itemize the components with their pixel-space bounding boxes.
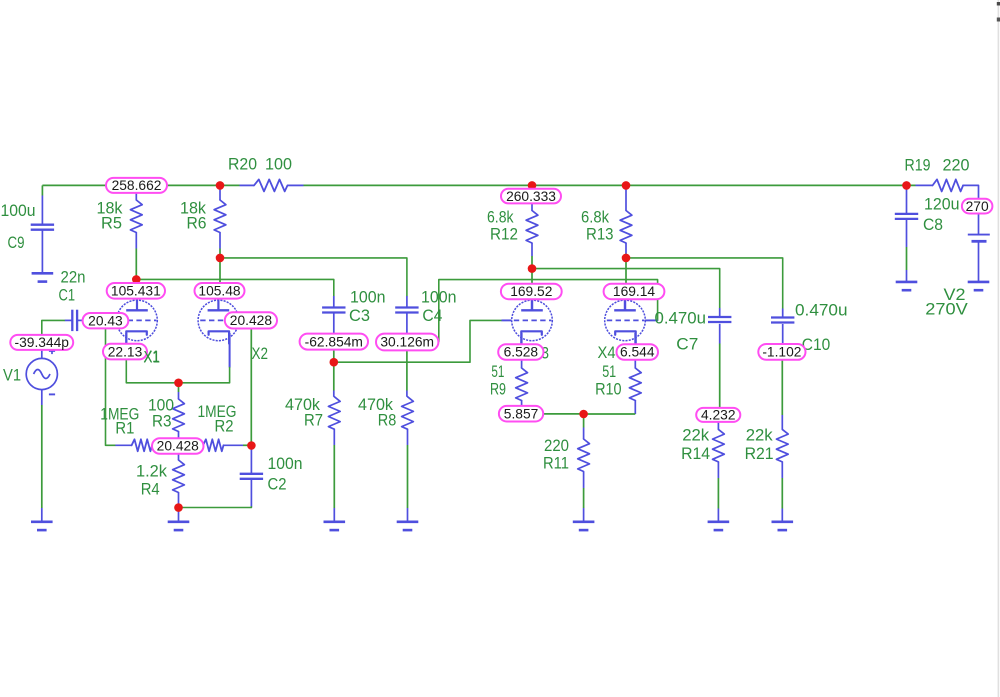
- svg-text:R3: R3: [152, 412, 172, 431]
- svg-text:0.470u: 0.470u: [655, 309, 707, 328]
- ground below C9: [32, 273, 54, 281]
- wire V1 to C1: [42, 320, 73, 358]
- scrollbar edge artifact: [997, 0, 1000, 697]
- label R10 ref: [595, 380, 622, 399]
- wire R19 left lead: [916, 184, 933, 186]
- wire X3 grid from C3 node: [334, 320, 512, 362]
- wire C2 top lead: [250, 446, 252, 474]
- resistor R13 6.8k: [620, 211, 632, 244]
- svg-text:X2: X2: [252, 344, 269, 363]
- capacitor C9: [31, 225, 54, 230]
- wire R14 bottom to ground: [717, 462, 719, 522]
- label R4 ref: [141, 480, 160, 499]
- wire C4 out down to R8: [406, 351, 408, 397]
- label C3 value 100n: [350, 288, 386, 307]
- svg-text:260.333: 260.333: [506, 189, 556, 204]
- wire R14 from probe: [717, 422, 719, 429]
- svg-text:R21: R21: [745, 444, 774, 463]
- probe node -1.102 C10 out: [758, 344, 805, 360]
- svg-text:6.528: 6.528: [504, 345, 539, 360]
- label C9 value 100u: [1, 201, 36, 220]
- resistor R4 1.2k: [173, 460, 185, 493]
- svg-text:R9: R9: [490, 380, 506, 399]
- wire R9 from probe: [521, 360, 523, 368]
- svg-text:220: 220: [544, 436, 569, 455]
- wire R10 from probe: [634, 360, 636, 368]
- resistor R19 220: [933, 179, 964, 191]
- wire R9 probe to R11 node: [543, 413, 583, 415]
- svg-text:C1: C1: [59, 286, 76, 305]
- label R2 ref: [215, 417, 234, 436]
- svg-text:220: 220: [943, 156, 970, 175]
- svg-text:C3: C3: [349, 306, 370, 325]
- label R9 ref: [490, 380, 506, 399]
- svg-text:1.2k: 1.2k: [136, 462, 167, 481]
- wire X4 grid from C4 probe node: [439, 280, 658, 342]
- resistor R20 100: [240, 179, 304, 191]
- wire C3 out node down to R7: [333, 350, 335, 397]
- svg-text:R7: R7: [304, 411, 323, 430]
- wire R6 bottom to node: [219, 233, 221, 284]
- junction dot X4 anode node: [622, 254, 631, 263]
- junction dot rail/R13: [622, 181, 631, 190]
- svg-text:R5: R5: [101, 214, 122, 233]
- junction dot R9 R10 R11: [579, 410, 588, 419]
- resistor R9 51: [516, 368, 528, 401]
- svg-text:100n: 100n: [350, 288, 386, 307]
- svg-text:20.428: 20.428: [157, 439, 200, 454]
- junction dot X2 anode node: [216, 254, 225, 263]
- label R6 ref: [187, 214, 207, 233]
- probe node 5.857 R9 bottom: [499, 406, 543, 422]
- wire C7 to R14 probe: [719, 344, 721, 409]
- wire C10 probe to R21: [781, 360, 783, 430]
- label X4 ref: [598, 343, 616, 362]
- source V1 sine: [26, 348, 57, 395]
- svg-text:R14: R14: [681, 444, 710, 463]
- label R7 ref: [304, 411, 323, 430]
- wire R9 bottom into probe: [521, 401, 523, 407]
- label V1 ref: [3, 366, 21, 385]
- wire C9 bottom lead: [41, 230, 43, 274]
- ground below R8: [397, 522, 419, 530]
- svg-text:4.232: 4.232: [701, 408, 736, 423]
- resistor R10 51: [629, 368, 641, 401]
- wire node X2 anode to C4: [220, 258, 407, 296]
- label R5 ref: [101, 214, 122, 233]
- svg-text:C4: C4: [422, 306, 442, 325]
- junction dot X1 anode node: [132, 275, 141, 284]
- svg-text:X1: X1: [144, 348, 161, 367]
- wire C2 bottom to R4 node: [179, 479, 252, 508]
- junction dot cathode join X1 X2: [174, 379, 183, 388]
- resistor R6 18k: [214, 200, 226, 233]
- svg-text:20.428: 20.428: [230, 313, 273, 328]
- svg-text:100: 100: [265, 155, 292, 174]
- svg-text:100u: 100u: [1, 201, 36, 220]
- battery V2 270V: [968, 235, 990, 242]
- svg-text:R13: R13: [586, 225, 614, 244]
- resistor R2 1MEG: [203, 439, 224, 451]
- label C7 ref: [676, 335, 698, 354]
- wire X3 cathode to R9 probe: [521, 333, 523, 345]
- label R12 value 6.8k: [487, 208, 514, 227]
- capacitor C4 100n: [395, 308, 418, 313]
- resistor R7 470k: [328, 397, 340, 430]
- wire node X1 anode to C3: [136, 279, 333, 296]
- ground below V2: [968, 282, 990, 290]
- wire R12 below probe: [531, 203, 533, 210]
- label X1 ref part1: [144, 347, 160, 366]
- svg-text:22k: 22k: [682, 426, 709, 445]
- capacitor C10 0.470u: [771, 318, 794, 323]
- wire R10 bottom to node: [584, 401, 636, 415]
- ground below R7: [324, 522, 346, 530]
- wire X4 anode lead from probe: [624, 299, 626, 310]
- wire R8 bottom to ground: [407, 429, 409, 522]
- svg-text:22.13: 22.13: [108, 344, 143, 359]
- resistor R21 22k: [776, 429, 788, 462]
- probe node 6.544 X4 cathode: [617, 344, 659, 360]
- svg-text:-1.102: -1.102: [762, 345, 801, 360]
- svg-text:120u: 120u: [924, 195, 960, 214]
- svg-text:22k: 22k: [746, 426, 773, 445]
- junction dot rail/C8: [902, 181, 911, 190]
- label C7 value 0.470u: [655, 309, 707, 328]
- capacitor C3 100n: [322, 308, 345, 313]
- svg-text:105.431: 105.431: [111, 284, 161, 299]
- probe node 6.528 X3 cathode: [498, 344, 543, 360]
- svg-text:270: 270: [966, 199, 989, 214]
- label C10 value 0.470u: [795, 301, 848, 320]
- label R19 value 220: [943, 156, 970, 175]
- label C4 value 100n: [421, 288, 457, 307]
- svg-text:R12: R12: [490, 225, 518, 244]
- label R11 ref: [543, 454, 569, 473]
- label R4 value 1.2k: [136, 462, 167, 481]
- wire C3 leads: [333, 296, 335, 334]
- capacitor C1 22n: [72, 310, 77, 331]
- label R13 ref: [586, 225, 614, 244]
- ground below R4: [168, 522, 190, 530]
- junction dot X3 anode node: [528, 264, 537, 273]
- label C4 ref: [422, 306, 442, 325]
- wire C9 top lead: [41, 185, 43, 225]
- label R21 value 22k: [746, 426, 773, 445]
- label R8 ref: [378, 411, 397, 430]
- label R3 value 100: [148, 396, 174, 415]
- svg-text:C9: C9: [8, 233, 25, 252]
- svg-text:22n: 22n: [61, 268, 86, 287]
- label R21 ref: [745, 444, 774, 463]
- wire X1 grid node down to R1: [106, 328, 132, 445]
- wire R6 top lead: [219, 185, 221, 200]
- label R5 value 18k: [97, 199, 123, 218]
- wire B+ rail from C9 to R20: [42, 184, 239, 186]
- probe node 105.48 X2 anode: [195, 283, 245, 299]
- svg-text:C8: C8: [923, 215, 943, 234]
- label C2 ref: [268, 475, 287, 494]
- wire R3 bottom into probe: [178, 432, 180, 439]
- ground below C8: [896, 282, 918, 290]
- label C8 value 120u: [924, 195, 960, 214]
- junction dot C3 output: [330, 358, 339, 367]
- probe node -39.344p V1: [10, 335, 73, 350]
- wire R13 top lead: [625, 185, 627, 210]
- label X3 ref under probe: [532, 344, 549, 363]
- probe node 20.428 X2 grid: [225, 312, 277, 328]
- wire R12 bottom to node: [531, 243, 533, 284]
- capacitor C8 120u: [895, 214, 918, 219]
- label R1 ref: [115, 419, 134, 438]
- label R14 ref: [681, 444, 710, 463]
- probe node 20.43 X1 grid: [83, 313, 129, 328]
- capacitor C7 0.470u: [708, 317, 731, 322]
- label R8 value 470k: [358, 395, 393, 414]
- wire R19 right to V2: [963, 185, 978, 198]
- svg-text:258.662: 258.662: [112, 178, 162, 193]
- capacitor C2 100n: [240, 474, 263, 479]
- wire C7 leads: [719, 308, 721, 344]
- wire C8 top lead: [906, 185, 908, 214]
- svg-text:0.470u: 0.470u: [795, 301, 848, 320]
- svg-text:R1: R1: [115, 419, 134, 438]
- wire R5 top lead: [135, 192, 137, 200]
- wire C8 bottom to ground: [906, 219, 908, 282]
- label C3 ref: [349, 306, 370, 325]
- svg-text:5.857: 5.857: [504, 406, 539, 421]
- svg-text:20.43: 20.43: [88, 313, 123, 328]
- wire R11 top: [583, 414, 585, 439]
- ground below R11: [573, 522, 595, 530]
- wire C4 leads: [406, 296, 408, 334]
- wire R12 top lead: [531, 185, 533, 189]
- label R12 ref: [490, 225, 518, 244]
- wire V2 from probe to plates: [978, 214, 980, 235]
- junction dot rail/R6: [216, 181, 225, 190]
- svg-text:R10: R10: [595, 380, 622, 399]
- ground below V1: [31, 522, 53, 530]
- svg-text:R8: R8: [378, 411, 397, 430]
- wire R13 bottom to node: [625, 243, 627, 284]
- resistor R14 22k: [713, 429, 725, 462]
- svg-text:51: 51: [602, 362, 616, 381]
- label C2 value 100n: [268, 454, 303, 473]
- label V2 ref: [944, 285, 966, 304]
- wire C1 to X1 grid probe: [77, 319, 84, 321]
- probe node 105.431 X1 anode: [107, 283, 165, 299]
- junction dot rail/R12: [528, 181, 537, 190]
- label R20 ref: [228, 155, 257, 174]
- svg-text:V1: V1: [3, 366, 21, 385]
- svg-text:C2: C2: [268, 475, 287, 494]
- probe node 22.13 X1 cathode: [103, 344, 147, 360]
- svg-text:100n: 100n: [421, 288, 457, 307]
- wire X4 cathode to R10 probe: [634, 333, 636, 345]
- label R11 value 220: [544, 436, 569, 455]
- wire X3 anode lead from probe: [531, 299, 533, 310]
- wire X2 grid node down to R2 node: [250, 329, 252, 446]
- svg-text:270V: 270V: [925, 300, 968, 319]
- label R13 value 6.8k: [581, 208, 609, 227]
- triode X1: [117, 299, 158, 343]
- wire C10 leads: [782, 309, 784, 344]
- label X2 ref: [252, 344, 269, 363]
- svg-text:R11: R11: [543, 454, 569, 473]
- svg-text:R6: R6: [187, 214, 207, 233]
- resistor R8 470k: [402, 397, 414, 430]
- label C1 ref: [59, 286, 76, 305]
- wire B+ rail from R20 to R19: [304, 184, 916, 186]
- wire X4 anode node to C10: [626, 258, 783, 309]
- resistor R11 220: [578, 439, 590, 472]
- svg-text:R19: R19: [905, 156, 931, 175]
- junction dot R2 grid node: [247, 441, 256, 450]
- svg-text:51: 51: [491, 362, 504, 381]
- svg-text:169.14: 169.14: [613, 284, 656, 299]
- label R10 value 51: [602, 362, 616, 381]
- svg-text:-39.344p: -39.344p: [15, 335, 70, 350]
- wire R7 bottom to ground: [333, 429, 335, 522]
- label R19 ref: [905, 156, 931, 175]
- wire R21 bottom to ground: [781, 462, 783, 522]
- label X1 ref over probe: [144, 348, 161, 367]
- probe node 20.428 R3 R4: [152, 438, 204, 454]
- label R2 value 1MEG: [198, 402, 237, 421]
- probe node 260.333 on rail: [501, 189, 561, 204]
- wire X3 anode node to C7: [532, 269, 720, 308]
- svg-text:-62.854m: -62.854m: [305, 334, 363, 349]
- label C9 ref: [8, 233, 25, 252]
- svg-text:R2: R2: [215, 417, 234, 436]
- resistor R12 6.8k: [526, 211, 538, 244]
- probe node -62.854m C3 out: [300, 334, 368, 350]
- svg-text:169.52: 169.52: [510, 284, 552, 299]
- label C8 ref: [923, 215, 943, 234]
- triode X3: [512, 299, 553, 343]
- label V2 value 270V: [925, 300, 968, 319]
- ground below R14: [708, 522, 730, 530]
- resistor R5 18k: [130, 200, 142, 233]
- triode X2: [198, 299, 239, 343]
- probe node 4.232 R14 top: [696, 408, 740, 423]
- wire V2 bottom to ground: [978, 242, 980, 282]
- resistor R3 100: [173, 399, 185, 432]
- junction dot R4 C2 ground node: [174, 503, 183, 512]
- svg-text:6.544: 6.544: [620, 345, 655, 360]
- label C10 ref: [802, 335, 831, 354]
- label R14 value 22k: [682, 426, 709, 445]
- wire V1 bottom to ground: [41, 389, 43, 522]
- probe node 169.14 X4 anode: [604, 284, 665, 300]
- wire R5 bottom to node: [135, 233, 137, 284]
- label C1 value 22n: [61, 268, 86, 287]
- triode X4: [605, 299, 646, 343]
- label R9 value 51: [491, 362, 504, 381]
- probe node 258.662 on rail: [106, 178, 167, 193]
- svg-text:30.126m: 30.126m: [380, 335, 434, 350]
- label R20 value 100: [265, 155, 292, 174]
- wire X2 cathode down: [179, 333, 230, 383]
- wire R11 bottom to ground: [583, 472, 585, 522]
- label R1 value 1MEG: [100, 405, 139, 424]
- label R6 value 18k: [180, 199, 206, 218]
- svg-text:100n: 100n: [268, 454, 303, 473]
- svg-text:C7: C7: [676, 335, 698, 354]
- probe node 270 V2 plus: [962, 199, 993, 214]
- resistor R1 1MEG: [132, 439, 153, 451]
- svg-text:R20: R20: [228, 155, 257, 174]
- ground below R21: [772, 522, 794, 530]
- svg-text:R4: R4: [141, 480, 160, 499]
- svg-text:X4: X4: [598, 343, 616, 362]
- probe node 169.52 X3 anode: [501, 284, 562, 300]
- wire R3 top lead: [178, 383, 180, 399]
- label R3 ref: [152, 412, 172, 431]
- wire R2 right lead to node: [223, 444, 251, 446]
- wire X1 cathode down: [126, 333, 178, 383]
- wire R4 bottom to ground: [178, 493, 180, 522]
- wire R4 from probe: [178, 454, 180, 460]
- probe node 30.126m C4 out: [376, 334, 438, 351]
- label R7 value 470k: [285, 395, 320, 414]
- svg-text:105.48: 105.48: [198, 284, 241, 299]
